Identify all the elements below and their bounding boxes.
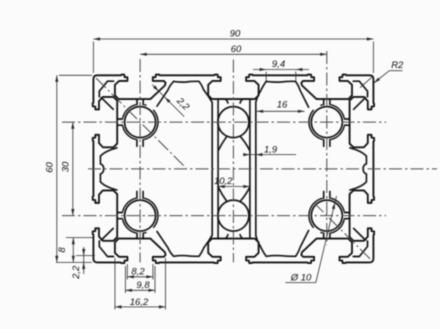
svg-text:30: 30 bbox=[61, 161, 72, 172]
diagonal centerline bottom-right bbox=[314, 202, 372, 260]
hole bosses bbox=[123, 126, 136, 139]
profile outer contour bbox=[93, 75, 374, 264]
dimension 2,2 diagonal bbox=[152, 85, 184, 117]
svg-text:Ø 10: Ø 10 bbox=[290, 272, 312, 283]
svg-text:1,9: 1,9 bbox=[264, 144, 278, 155]
svg-text:10,2: 10,2 bbox=[214, 176, 233, 187]
svg-text:16,2: 16,2 bbox=[130, 297, 149, 308]
corner gusset walls bbox=[99, 81, 113, 97]
centerline col x=75 bbox=[326, 51, 328, 245]
dimension 9,4 bbox=[253, 69, 309, 71]
dimension 90 bbox=[93, 38, 373, 40]
holes d10 bbox=[125, 107, 156, 138]
dimension 60 top bbox=[140, 53, 327, 55]
svg-text:8,2: 8,2 bbox=[131, 267, 145, 278]
dimension 16 bbox=[257, 110, 305, 112]
side wall inner surfaces with mid bulges bbox=[100, 148, 117, 190]
label diameter 10 bbox=[316, 196, 337, 283]
svg-text:8: 8 bbox=[57, 247, 68, 253]
svg-text:60: 60 bbox=[45, 162, 56, 173]
svg-text:16: 16 bbox=[277, 100, 288, 111]
central channel walls 1.9 bbox=[211, 103, 213, 236]
dimension 8 bbox=[72, 238, 74, 263]
channel cavity bottoms and bone fillets bbox=[217, 99, 228, 103]
centerline row y=15 bbox=[62, 121, 386, 123]
centerline col x=15 bbox=[139, 59, 141, 262]
slot flank walls 2.2 bbox=[157, 82, 174, 107]
label R2 bbox=[389, 70, 402, 72]
centerline row y=45 bbox=[62, 215, 386, 217]
svg-text:2,2: 2,2 bbox=[173, 95, 191, 113]
svg-text:90: 90 bbox=[230, 29, 241, 40]
dimension 1,9 bbox=[243, 154, 296, 156]
dimension 8,2 bbox=[127, 276, 153, 278]
dimension 16,2 bbox=[115, 306, 166, 308]
hole boss stubs bbox=[136, 140, 138, 147]
centerline col x=45 bbox=[232, 60, 234, 263]
svg-text:9,4: 9,4 bbox=[272, 59, 285, 70]
dimension 2,2 bottom bbox=[83, 247, 85, 274]
bone-to-wall flares bbox=[218, 136, 227, 150]
dimension 60 left bbox=[56, 75, 58, 262]
svg-text:2,2: 2,2 bbox=[71, 265, 82, 280]
svg-text:60: 60 bbox=[231, 44, 242, 55]
dimension 10,2 bbox=[218, 186, 250, 188]
dimension 30 bbox=[72, 122, 74, 216]
svg-text:R2: R2 bbox=[391, 60, 404, 71]
diagonal centerline top-left bbox=[96, 78, 186, 168]
dimension 9,8 bbox=[125, 289, 155, 291]
centerline mid horizontal bbox=[88, 168, 437, 170]
web ribs at x=30 and x=60 bbox=[174, 80, 199, 83]
svg-text:9,8: 9,8 bbox=[136, 280, 150, 291]
